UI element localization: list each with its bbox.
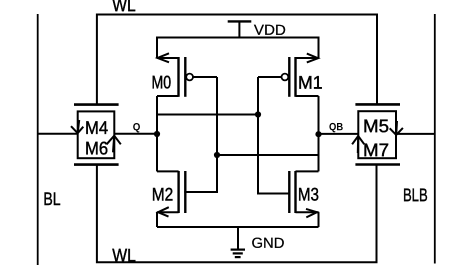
- svg-text:WL: WL: [112, 245, 136, 265]
- svg-text:BLB: BLB: [403, 185, 428, 205]
- svg-text:BL: BL: [43, 189, 60, 209]
- svg-text:M7: M7: [363, 140, 389, 160]
- svg-text:WL: WL: [112, 0, 135, 15]
- svg-text:M6: M6: [85, 138, 108, 158]
- svg-text:M0: M0: [152, 72, 172, 92]
- svg-text:M5: M5: [363, 116, 389, 136]
- svg-text:M1: M1: [298, 73, 323, 93]
- svg-text:M4: M4: [85, 118, 108, 138]
- svg-text:Q: Q: [133, 121, 141, 133]
- svg-text:QB: QB: [329, 121, 343, 133]
- svg-text:M2: M2: [152, 185, 174, 205]
- svg-text:VDD: VDD: [254, 23, 286, 39]
- svg-text:M3: M3: [298, 185, 319, 205]
- svg-text:GND: GND: [251, 236, 284, 252]
